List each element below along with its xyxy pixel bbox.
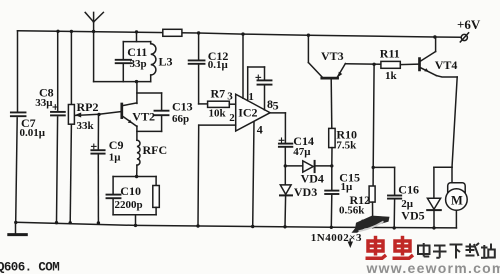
svg-text:VT3: VT3 <box>321 49 344 63</box>
capacitor C13 loop <box>137 93 169 131</box>
node C8 ground junction <box>55 221 58 224</box>
svg-text:R11: R11 <box>380 46 400 60</box>
svg-text:33μ: 33μ <box>35 97 53 109</box>
node IC2 feed top-rail junction <box>241 32 244 35</box>
node R12/C16 corner junction <box>372 166 375 169</box>
svg-text:4: 4 <box>257 122 263 136</box>
diode VD4 <box>285 161 332 172</box>
node C10 ground junction <box>134 224 137 227</box>
watermark chongchong red characters <box>366 236 414 258</box>
svg-text:L3: L3 <box>159 55 173 69</box>
svg-text:C9: C9 <box>109 138 124 152</box>
svg-text:IC2: IC2 <box>238 106 257 120</box>
ground <box>9 222 27 234</box>
watermark site name characters <box>418 243 495 259</box>
capacitor C9 <box>91 114 104 223</box>
svg-text:1μ: 1μ <box>341 181 354 193</box>
node C14/VD4/VD3 junction <box>284 164 287 167</box>
svg-text:M: M <box>451 193 463 207</box>
node pin4 ground junction <box>251 225 254 228</box>
svg-text:VD5: VD5 <box>401 208 424 222</box>
wire VT4 emitter <box>434 76 457 199</box>
node C8 top-rail junction <box>56 30 59 33</box>
antenna <box>85 12 103 31</box>
svg-text:1k: 1k <box>385 70 398 82</box>
svg-text:0.01μ: 0.01μ <box>20 127 46 139</box>
capacitor C15 <box>325 166 338 227</box>
wire top supply rail <box>18 31 461 38</box>
transistor VT2 <box>122 82 137 141</box>
wire C10 loop bottom <box>113 214 156 216</box>
svg-text:1: 1 <box>248 91 254 103</box>
node C16 ground junction <box>393 226 396 229</box>
svg-text:2200p: 2200p <box>115 199 143 211</box>
wire tank top tap <box>136 32 138 42</box>
svg-text:1μ: 1μ <box>109 151 122 163</box>
svg-text:0.56k: 0.56k <box>339 204 365 216</box>
inductor L3 <box>151 42 156 82</box>
node antenna/top-rail junction <box>92 30 95 33</box>
node RP2 ground junction <box>69 221 72 224</box>
node tank bottom / VT2 collector junction <box>135 80 138 83</box>
wire IC2 pin4 to ground <box>253 122 254 227</box>
transistor VT3 <box>308 35 345 128</box>
svg-text:RFC: RFC <box>143 143 168 157</box>
svg-text:RP2: RP2 <box>77 100 99 114</box>
node C12 top-rail junction <box>197 31 200 34</box>
svg-text:VT2: VT2 <box>132 110 155 124</box>
node RP2 top-rail junction <box>70 30 73 33</box>
wire VT3 emitter to R11 <box>345 63 381 66</box>
resistor R7 <box>208 101 236 107</box>
wire C10 to ground stub <box>135 215 137 226</box>
svg-text:VD4: VD4 <box>301 172 324 186</box>
svg-text:33k: 33k <box>77 120 95 132</box>
watermark arrow logo <box>348 216 390 248</box>
capacitor C16 <box>388 196 401 228</box>
wire RP2 wiper to VT2 base <box>75 112 121 116</box>
capacitor C12 <box>189 33 208 104</box>
svg-text:www.eeworm.com: www.eeworm.com <box>366 260 500 274</box>
svg-text:33p: 33p <box>130 58 147 70</box>
node R10/C15/VD4 junction <box>330 164 333 167</box>
diode VD5 <box>427 198 441 228</box>
node C9 tap on base wire <box>97 113 100 116</box>
svg-text:+6V: +6V <box>457 17 481 32</box>
node VT4 collector top-rail junction <box>433 35 436 38</box>
svg-text:C16: C16 <box>398 182 419 196</box>
capacitor C10 <box>107 177 157 215</box>
svg-text:7.5k: 7.5k <box>336 139 357 151</box>
wire IC2 pin2 to ground <box>198 125 236 226</box>
wire R12/C16 branch <box>373 64 394 195</box>
svg-text:C13: C13 <box>172 100 193 114</box>
resistor (supply decoupling, on top rail) <box>163 29 182 36</box>
op-amp IC2 <box>236 94 270 131</box>
capacitor C8 <box>51 31 65 222</box>
node C15 ground junction <box>330 226 333 229</box>
node VD3 ground junction <box>283 225 286 228</box>
node VT3 collector top-rail junction <box>307 34 310 37</box>
motor M <box>446 167 468 228</box>
node pin2 ground junction <box>196 224 199 227</box>
wire antenna down-lead to tank bottom <box>93 32 95 82</box>
diode VD3 <box>280 166 292 227</box>
wire ground rail <box>16 222 457 228</box>
wire IC2 pin5 output <box>270 113 285 143</box>
transistor VT4 <box>420 37 437 76</box>
svg-text:R7: R7 <box>211 87 226 101</box>
node ground rail left end <box>14 221 17 224</box>
node R12 branch junction <box>372 63 375 66</box>
svg-text:2: 2 <box>229 112 235 124</box>
wire IC2 supply feed <box>242 34 244 98</box>
svg-text:10k: 10k <box>209 107 227 119</box>
node VD5 ground junction <box>432 226 435 229</box>
+6V terminal <box>460 33 468 42</box>
resistor R11 <box>381 61 418 68</box>
svg-text:3: 3 <box>227 90 233 102</box>
capacitor C7 <box>11 31 26 223</box>
potentiometer RP2 <box>68 31 81 222</box>
svg-text:1N4002×3: 1N4002×3 <box>311 232 362 244</box>
capacitor between pin1 and pin8 <box>248 67 272 110</box>
capacitor C14 <box>279 138 292 166</box>
capacitor C11 <box>116 42 151 82</box>
svg-text:VT4: VT4 <box>435 58 458 72</box>
node tank tap junction <box>135 30 138 33</box>
svg-text:66p: 66p <box>172 113 189 125</box>
wire tank bottom <box>94 81 151 83</box>
node RFC / C10 junction <box>135 175 138 178</box>
resistor (emitter damping) <box>153 177 160 215</box>
svg-text:VD3: VD3 <box>294 185 317 199</box>
node C9 ground junction <box>97 221 100 224</box>
resistor R10 <box>329 128 335 166</box>
svg-text:47μ: 47μ <box>293 146 311 158</box>
svg-text:Q606. COM: Q606. COM <box>0 261 59 274</box>
inductor RFC <box>137 140 140 176</box>
svg-text:C10: C10 <box>120 184 141 198</box>
svg-text:0.1μ: 0.1μ <box>208 59 229 71</box>
resistor R12 <box>369 167 375 227</box>
svg-text:5: 5 <box>273 99 279 113</box>
